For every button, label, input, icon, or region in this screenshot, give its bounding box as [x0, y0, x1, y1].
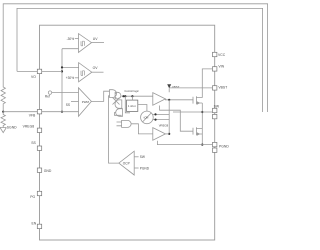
svg-text:VIN: VIN [218, 65, 224, 69]
pin PGND lower [213, 148, 217, 152]
label VBST internal [172, 85, 180, 89]
wire cross coupling vertical [168, 100, 170, 134]
wire VO pin connection [17, 70, 37, 72]
gate G5 low side and [117, 120, 132, 127]
wire low driver output [165, 133, 169, 135]
terminal Ref input circle [48, 91, 51, 94]
wire ton lower tap [153, 119, 170, 121]
svg-text:PGND: PGND [140, 166, 150, 170]
label 1 shot [128, 104, 136, 108]
svg-text:PWM: PWM [82, 100, 90, 104]
pin VO [37, 69, 41, 73]
label OV net [93, 66, 99, 70]
wire ton upper tap to cross line [152, 113, 169, 115]
node bus oneshot left tap [124, 95, 126, 97]
gate G1 [110, 90, 117, 98]
wire VBST pin to driver supply [169, 88, 212, 92]
transistor Q2 low side NMOS [193, 127, 202, 135]
label Ref [45, 95, 50, 99]
wire SW internal [173, 111, 213, 113]
oscillator tON circle [141, 111, 154, 124]
pin PGND upper [213, 142, 217, 146]
node low gate node [168, 133, 170, 135]
comparator U3 PWM [79, 88, 92, 117]
IC block border [40, 25, 215, 240]
label PWM [82, 100, 90, 104]
svg-text:SS: SS [31, 141, 36, 145]
label VBST [218, 86, 227, 90]
label VO [31, 75, 36, 79]
svg-text:SW: SW [214, 105, 220, 109]
comparator U6 OCP [119, 151, 134, 175]
svg-text:VO: VO [31, 75, 36, 79]
label VIN [218, 65, 224, 69]
resistor R1 feedback divider top [1, 86, 5, 112]
wire OCP input SW [134, 156, 138, 158]
label SS pin [31, 141, 36, 145]
gate G3 [115, 100, 122, 108]
label -30% [67, 37, 75, 41]
svg-text:PGND: PGND [219, 145, 229, 149]
comparator U1 UV detect [79, 34, 92, 53]
wire G5 to low driver [131, 124, 153, 134]
pin VFB [37, 110, 41, 114]
svg-text:SS: SS [66, 103, 70, 107]
svg-text:SW: SW [140, 155, 145, 159]
wire comp2 output OV [92, 71, 104, 73]
wire G4 output [115, 113, 122, 116]
wire comp1 minus input from VFB riser [62, 48, 79, 50]
wire VO feedback top outer loop [3, 4, 267, 112]
node bus G2 out [122, 95, 124, 97]
svg-text:1 shot: 1 shot [128, 104, 136, 108]
label PGND ocp [140, 166, 150, 170]
svg-text:-30%: -30% [67, 37, 75, 41]
gate G2 [115, 92, 121, 99]
node VFB divider junction [2, 111, 4, 113]
label VREG8 driver supply [159, 123, 169, 127]
svg-text:OCP: OCP [123, 162, 130, 166]
wire oneshot to ton circle [138, 105, 147, 112]
svg-text:OV: OV [93, 66, 99, 70]
label Control logic [124, 89, 139, 93]
wire comp2 minus input +30% [75, 77, 79, 79]
wire SS input stub [71, 100, 79, 102]
wire PGND internal [157, 141, 212, 145]
node SW junction [201, 111, 203, 113]
comparator U2 OV detect [79, 63, 92, 82]
pin VCC [213, 52, 217, 56]
label EN [32, 222, 37, 226]
supply arrow VBST internal [167, 84, 171, 88]
svg-text:Ref: Ref [45, 95, 50, 99]
label GND [44, 169, 52, 173]
wire comp1 plus input -30% [75, 38, 79, 40]
wire high driver to gate [165, 99, 193, 100]
wire comp1 output UV [92, 42, 105, 44]
wire VFB riser to comparators [61, 49, 63, 112]
pin VBST [213, 86, 217, 90]
driver U4 high side [153, 93, 166, 106]
label PGND [219, 145, 229, 149]
node riser VFB tap [61, 111, 63, 113]
block one shot [127, 100, 138, 111]
label OCP [123, 162, 130, 166]
svg-text:VBST: VBST [218, 86, 227, 90]
svg-text:Control logic: Control logic [124, 89, 139, 93]
resistor R2 feedback divider bottom [1, 112, 5, 128]
node bus oneshot top tap [131, 95, 133, 97]
wire VIN rail to Q1 drain [202, 69, 212, 98]
wire comp2 plus input from VFB riser [62, 66, 79, 68]
wire VFB to PWM comp minus [42, 111, 79, 113]
ground SGND divider [0, 128, 6, 133]
svg-text:VREG8: VREG8 [159, 123, 169, 127]
wire VO pin into riser [42, 70, 62, 72]
label SW [214, 105, 220, 109]
svg-text:VCC: VCC [218, 53, 226, 57]
svg-text:PG: PG [30, 195, 35, 199]
wire gate cluster crossover [113, 98, 120, 105]
svg-text:GND: GND [44, 169, 52, 173]
label SGND [7, 125, 17, 129]
label VREG8 pin [23, 125, 35, 129]
node high gate [168, 99, 170, 101]
wire Q1 source to SW [201, 103, 203, 145]
svg-text:VREG8: VREG8 [23, 125, 35, 129]
transistor Q1 high side NMOS [193, 96, 202, 104]
gate G4 [116, 109, 123, 117]
node ton lower [154, 119, 156, 121]
svg-text:EN: EN [32, 222, 37, 226]
node PGND junction [201, 144, 203, 146]
pin SS [37, 146, 41, 150]
wire bus into oneshot [131, 96, 133, 100]
label VFB [29, 114, 36, 118]
pin EN [37, 224, 41, 228]
wire VO sense second loop [17, 8, 263, 112]
wire VFB to pin [3, 111, 37, 113]
wire PWM comp output [91, 91, 109, 101]
svg-text:tON: tON [144, 116, 149, 120]
node riser comp2 tap [61, 66, 63, 68]
svg-text:VFB: VFB [29, 114, 36, 118]
node riser VO tap [61, 70, 63, 72]
label VCC [218, 53, 226, 57]
label tON [144, 116, 149, 120]
pin GND [37, 168, 41, 172]
label PG [30, 195, 35, 199]
label SW ocp [140, 155, 145, 159]
svg-text:+30%: +30% [66, 76, 74, 80]
pin VREG8 left [37, 128, 41, 132]
pin SW lower [213, 114, 217, 118]
node ton upper [154, 113, 156, 115]
driver U5 low side [153, 128, 166, 141]
wire OCP output to logic [109, 96, 119, 163]
pin SW upper [213, 108, 217, 112]
pin PG [37, 191, 41, 195]
label UV net [93, 37, 98, 41]
svg-text:UV: UV [93, 37, 98, 41]
pin VIN [213, 67, 217, 71]
label SS input [66, 103, 70, 107]
wire dead time path [160, 106, 193, 132]
wire main PWM bus to driver [122, 95, 153, 97]
wire Ref to PWM comp [52, 92, 79, 94]
wire OCP input PGND [134, 167, 138, 169]
svg-text:SGND: SGND [7, 125, 17, 129]
wire oneshot left loop [125, 96, 130, 113]
label +30% [66, 76, 74, 80]
